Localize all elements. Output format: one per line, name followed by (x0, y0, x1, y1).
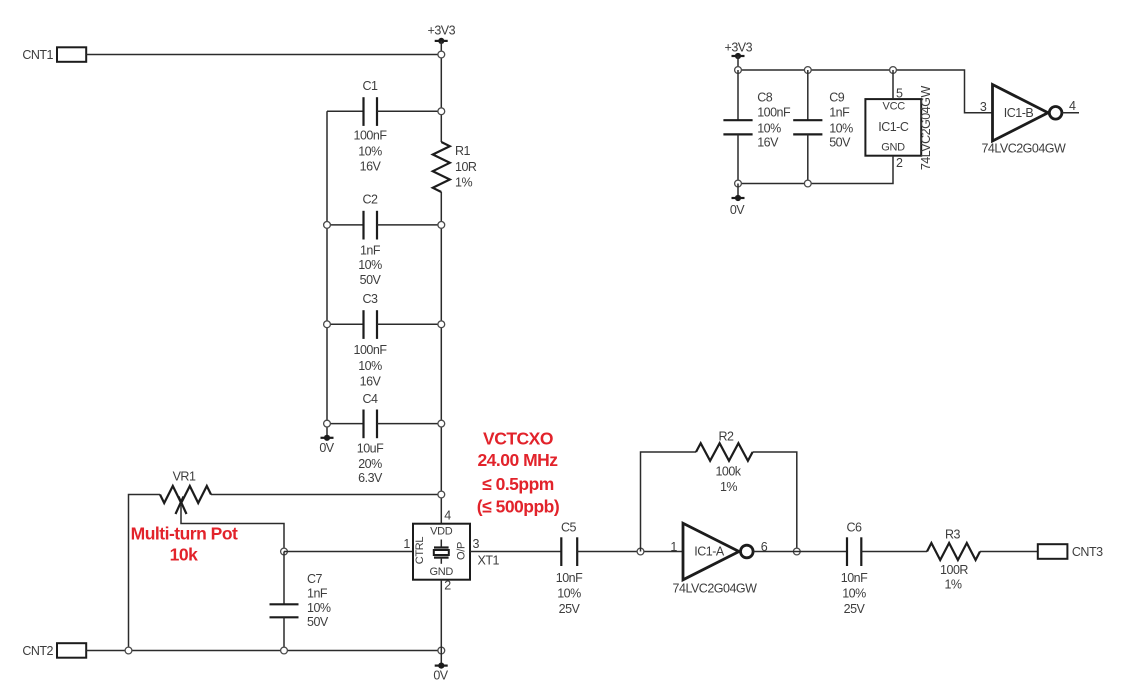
wire C5 to IC1-A input (577, 551, 683, 553)
svg-text:C7: C7 (307, 572, 323, 586)
svg-text:16V: 16V (360, 375, 382, 389)
svg-text:VDD: VDD (430, 525, 453, 537)
node VR1 right at main rail (438, 491, 445, 498)
label VCTCXO note (red) (477, 428, 559, 516)
node C2 left (324, 222, 331, 229)
node feedback right (793, 548, 800, 555)
capacitor C7 (270, 552, 331, 651)
svg-text:74LVC2G04GW: 74LVC2G04GW (673, 581, 758, 595)
connector CNT3 (1038, 544, 1103, 559)
ground 0V (top-right) (730, 184, 745, 218)
svg-text:74LVC2G04GW: 74LVC2G04GW (919, 86, 933, 171)
svg-text:100nF: 100nF (354, 129, 388, 143)
resistor R2 (696, 430, 753, 494)
svg-text:GND: GND (881, 142, 905, 154)
svg-text:50V: 50V (829, 136, 851, 150)
node C2 right (438, 222, 445, 229)
svg-text:3: 3 (980, 100, 987, 114)
svg-text:25V: 25V (844, 602, 866, 616)
svg-text:1%: 1% (720, 480, 737, 494)
svg-text:O/P: O/P (456, 542, 468, 560)
svg-text:VR1: VR1 (173, 470, 196, 484)
svg-text:10%: 10% (557, 586, 581, 600)
wire GND pin to bottom rail (738, 156, 893, 184)
node bottom rail left (125, 647, 132, 654)
svg-text:10nF: 10nF (841, 571, 868, 585)
connector CNT2 (22, 643, 86, 658)
svg-text:R1: R1 (455, 144, 471, 158)
svg-text:100k: 100k (715, 465, 741, 479)
node C4 right (438, 420, 445, 427)
inverter IC1-B (981, 85, 1066, 156)
wire IC1-A output to C6 (753, 551, 847, 553)
capacitor C2 (327, 193, 441, 288)
wire C6 to R3 (861, 551, 927, 553)
node bottom rail C7 (281, 647, 288, 654)
svg-text:10%: 10% (307, 601, 331, 615)
svg-text:10%: 10% (358, 258, 382, 272)
svg-text:16V: 16V (360, 160, 382, 174)
svg-text:100R: 100R (940, 563, 968, 577)
wire left bypass column (326, 111, 328, 438)
svg-text:+3V3: +3V3 (428, 24, 456, 38)
svg-text:10nF: 10nF (556, 571, 583, 585)
oscillator XT1 (413, 524, 499, 580)
node C1 right (438, 108, 445, 115)
svg-text:Multi-turn Pot: Multi-turn Pot (131, 524, 238, 544)
svg-text:10uF: 10uF (357, 442, 384, 456)
capacitor C5 (556, 521, 583, 617)
resistor R3 (927, 528, 980, 592)
svg-text:CNT3: CNT3 (1072, 545, 1103, 559)
wire feedback right drop (753, 452, 797, 552)
svg-text:10%: 10% (829, 121, 853, 135)
wire VR1 left leg down to bottom rail (129, 495, 161, 651)
capacitor C3 (327, 292, 441, 389)
svg-text:5: 5 (896, 86, 903, 100)
node C3 left (324, 321, 331, 328)
node rail VCC (890, 67, 897, 74)
potentiometer VR1 (160, 470, 211, 515)
svg-text:1%: 1% (944, 578, 961, 592)
wire XT1 O/P to C5 (470, 551, 561, 553)
svg-text:10k: 10k (170, 545, 198, 565)
svg-text:R3: R3 (945, 528, 961, 542)
node rail C8 (735, 67, 742, 74)
power +3V3 (left) (428, 24, 456, 55)
capacitor C9 (793, 70, 853, 184)
svg-text:C9: C9 (829, 91, 845, 105)
svg-text:6.3V: 6.3V (358, 471, 383, 485)
wire CNT1 to +3V3 rail (86, 54, 441, 56)
svg-text:C6: C6 (847, 521, 863, 535)
node feedback left (637, 548, 644, 555)
svg-text:+3V3: +3V3 (725, 41, 753, 55)
resistor R1 (433, 142, 477, 192)
svg-text:100nF: 100nF (757, 106, 791, 120)
ground 0V (bypass column) (319, 435, 334, 455)
svg-text:1: 1 (403, 537, 410, 551)
svg-text:VCTCXO: VCTCXO (483, 428, 553, 448)
svg-text:1nF: 1nF (360, 244, 381, 258)
wire VR1 right leg to main rail (211, 494, 441, 496)
svg-text:1: 1 (670, 540, 677, 554)
wire R3 to CNT3 (980, 551, 1038, 553)
svg-text:10R: 10R (455, 160, 477, 174)
svg-text:R2: R2 (719, 430, 735, 444)
svg-text:IC1-C: IC1-C (878, 120, 909, 134)
node bottom C9 (804, 180, 811, 187)
svg-text:16V: 16V (757, 136, 779, 150)
svg-text:4: 4 (1069, 99, 1076, 113)
svg-text:CNT2: CNT2 (22, 644, 53, 658)
svg-text:CTRL: CTRL (414, 537, 426, 565)
wire feedback left rise (641, 452, 697, 552)
capacitor C1 (327, 79, 441, 174)
svg-text:C3: C3 (363, 292, 379, 306)
svg-text:(≤ 500ppb): (≤ 500ppb) (477, 496, 559, 516)
svg-text:VCC: VCC (883, 101, 906, 113)
node at +3V3 / CNT1 (438, 51, 445, 58)
svg-text:1%: 1% (455, 176, 472, 190)
svg-text:CNT1: CNT1 (22, 48, 53, 62)
svg-text:50V: 50V (307, 615, 329, 629)
svg-text:IC1-B: IC1-B (1004, 106, 1034, 120)
svg-text:50V: 50V (360, 273, 382, 287)
svg-text:10%: 10% (358, 144, 382, 158)
svg-text:≤ 0.5ppm: ≤ 0.5ppm (482, 474, 554, 494)
node bottom rail XT1 GND (438, 647, 445, 654)
node C3 right (438, 321, 445, 328)
svg-text:74LVC2G04GW: 74LVC2G04GW (981, 142, 1066, 156)
capacitor C4 (327, 392, 441, 485)
connector CNT1 (22, 47, 86, 62)
svg-text:1nF: 1nF (829, 106, 850, 120)
svg-text:0V: 0V (319, 441, 334, 455)
svg-text:2: 2 (444, 579, 451, 593)
wire VR1 wiper to C7 node (181, 504, 284, 552)
svg-text:IC1-A: IC1-A (694, 545, 725, 559)
svg-text:2: 2 (896, 156, 903, 170)
svg-text:GND: GND (430, 566, 454, 578)
power block IC1-C (865, 86, 932, 171)
svg-text:4: 4 (444, 509, 451, 523)
svg-text:20%: 20% (358, 457, 382, 471)
svg-text:C8: C8 (757, 91, 773, 105)
capacitor C6 (841, 521, 868, 617)
svg-text:10%: 10% (757, 121, 781, 135)
svg-text:24.00 MHz: 24.00 MHz (477, 450, 558, 470)
svg-text:C4: C4 (363, 392, 379, 406)
node CTRL junction (281, 548, 288, 555)
svg-text:0V: 0V (433, 669, 448, 683)
svg-text:C1: C1 (363, 79, 379, 93)
inverter IC1-A (673, 523, 758, 595)
wire CTRL node to XT1 pin 1 (284, 551, 413, 553)
svg-text:1nF: 1nF (307, 587, 328, 601)
svg-text:C5: C5 (561, 521, 577, 535)
wire IC1-B output (1062, 112, 1079, 114)
wire top-right supply rail (738, 70, 993, 113)
wire R1 bottom to XT1 VDD (440, 192, 442, 524)
wire main +3V3 rail down to R1 (440, 55, 442, 143)
ground 0V (main) (433, 651, 448, 683)
node rail C9 (804, 67, 811, 74)
power +3V3 (right) (725, 41, 753, 70)
wire VCC pin (892, 70, 894, 99)
svg-text:25V: 25V (559, 602, 581, 616)
wire XT1 GND pin down (440, 580, 442, 651)
wire bottom rail (86, 650, 441, 652)
svg-text:100nF: 100nF (354, 343, 388, 357)
svg-text:10%: 10% (842, 586, 866, 600)
node C4 left (324, 420, 331, 427)
svg-text:C2: C2 (363, 193, 379, 207)
capacitor C8 (723, 70, 791, 184)
node bottom C8 (735, 180, 742, 187)
svg-text:XT1: XT1 (478, 554, 500, 568)
svg-text:0V: 0V (730, 203, 745, 217)
svg-text:10%: 10% (358, 359, 382, 373)
svg-text:3: 3 (473, 537, 480, 551)
